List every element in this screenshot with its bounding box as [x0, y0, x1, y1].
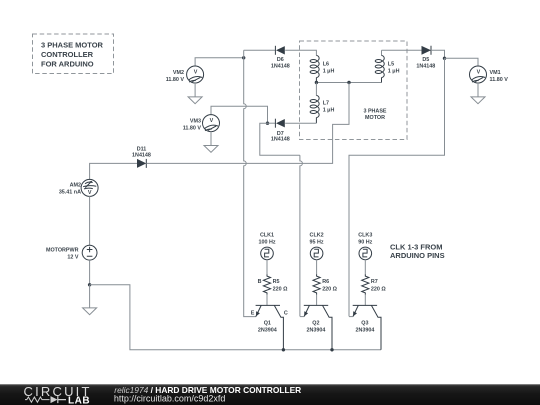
svg-text:1N4148: 1N4148 — [271, 136, 290, 142]
3 phase motor enclosure box — [300, 41, 408, 140]
svg-text:VM1: VM1 — [490, 70, 501, 76]
svg-text:12 V: 12 V — [67, 255, 78, 261]
svg-text:L6: L6 — [323, 62, 329, 68]
svg-text:Q2: Q2 — [312, 321, 319, 327]
voltmeter VM2 — [166, 66, 204, 97]
node Q2 collector to bus — [330, 348, 333, 351]
svg-text:220 Ω: 220 Ω — [322, 287, 337, 293]
resistor R6 — [313, 274, 338, 305]
node Q1 collector to bus — [282, 348, 285, 351]
node junction L6/L7 — [315, 81, 318, 84]
wire D7 to L7 bottom — [285, 122, 316, 124]
transistor Q3 — [349, 305, 381, 349]
svg-text:L7: L7 — [323, 101, 329, 107]
svg-text:V: V — [194, 69, 198, 75]
ground for VM2 — [188, 97, 202, 104]
svg-text:MOTOR: MOTOR — [365, 115, 385, 121]
footer bar — [0, 384, 540, 405]
CircuitLab logo — [24, 384, 92, 405]
svg-text:220 Ω: 220 Ω — [371, 287, 386, 293]
svg-text:11.80 V: 11.80 V — [490, 77, 509, 83]
svg-text:R7: R7 — [371, 279, 378, 285]
svg-text:CLK3: CLK3 — [358, 233, 372, 239]
ground for MOTORPWR — [83, 308, 97, 315]
wire L5 top to D5 — [382, 49, 422, 51]
footer text — [114, 385, 301, 403]
wire D6 to L6 top — [285, 50, 316, 55]
voltmeter VM3 — [183, 115, 220, 146]
wire node to VM1 — [445, 58, 479, 66]
svg-text:35.41 nA: 35.41 nA — [59, 190, 81, 196]
wire D7 junction to diode — [268, 122, 276, 124]
svg-text:1 μH: 1 μH — [323, 107, 335, 113]
emitter column2 wire with hop — [300, 155, 303, 316]
wire junction to ground — [89, 285, 91, 308]
ground for VM1 — [471, 97, 485, 104]
svg-text:AM2: AM2 — [70, 183, 81, 189]
svg-text:ARDUINO PINS: ARDUINO PINS — [390, 251, 445, 260]
diode D11 — [132, 147, 151, 168]
node D7 junction — [266, 122, 269, 125]
transistor Q2 — [300, 305, 332, 349]
inductor L6 — [310, 56, 334, 83]
svg-text:1 μH: 1 μH — [388, 68, 400, 74]
note CLK 1-3 FROM ARDUINO PINS — [390, 243, 445, 261]
svg-text:3 PHASE: 3 PHASE — [363, 108, 386, 114]
svg-text:MOTORPWR: MOTORPWR — [46, 248, 79, 254]
clock source CLK3 — [358, 233, 372, 275]
svg-text:V: V — [88, 190, 92, 196]
svg-text:1 μH: 1 μH — [323, 68, 335, 74]
wire motor bus L6 bottom to L5 bottom — [316, 82, 381, 84]
resistor R5 — [258, 274, 288, 305]
node D5/VM1 junction — [443, 57, 446, 60]
svg-text:220 Ω: 220 Ω — [273, 287, 288, 293]
wire junction right and down to bottom bus — [90, 285, 381, 350]
diode D7 — [271, 119, 290, 143]
svg-text:V: V — [210, 118, 214, 124]
ammeter AM2 — [59, 163, 137, 245]
svg-text:D6: D6 — [277, 57, 284, 63]
wire D5 to node and down to right rail — [431, 50, 445, 58]
voltage source MOTORPWR — [46, 245, 97, 284]
annotation box: 3 PHASE MOTOR CONTROLLER FOR ARDUINO — [33, 34, 114, 74]
svg-text:11.80 V: 11.80 V — [166, 77, 185, 83]
svg-text:B: B — [258, 279, 262, 285]
svg-text:VM2: VM2 — [173, 70, 184, 76]
svg-text:90 Hz: 90 Hz — [358, 239, 372, 245]
svg-text:95 Hz: 95 Hz — [310, 239, 324, 245]
svg-text:1N4148: 1N4148 — [271, 63, 290, 69]
svg-text:Q1: Q1 — [264, 321, 271, 327]
svg-text:D5: D5 — [422, 57, 429, 63]
node VM2 junction — [242, 56, 245, 59]
wire jog from D7 junction down to emitter column2 — [260, 123, 300, 155]
inductor L5 — [375, 50, 399, 82]
svg-text:Q3: Q3 — [361, 321, 368, 327]
svg-text:3 PHASE MOTOR: 3 PHASE MOTOR — [41, 41, 104, 50]
clock source CLK1 — [258, 233, 275, 275]
svg-text:R5: R5 — [273, 279, 280, 285]
transistor Q1 — [251, 305, 288, 349]
wire D11 to center tap riser — [146, 83, 349, 164]
svg-text:1N4148: 1N4148 — [416, 63, 435, 69]
svg-text:2N3904: 2N3904 — [258, 328, 277, 334]
svg-text:2N3904: 2N3904 — [306, 328, 325, 334]
emitter column1 wire with hops — [244, 50, 256, 316]
wire VM3 to D7 junction — [211, 106, 268, 123]
node junction center tap — [347, 81, 350, 84]
svg-text:E: E — [251, 311, 255, 317]
diode D6 — [271, 46, 290, 70]
svg-text:R6: R6 — [322, 279, 329, 285]
diode D5 — [416, 46, 435, 70]
wire VM2 to emitter column1 — [195, 58, 244, 66]
svg-text:LAB: LAB — [68, 395, 90, 405]
svg-text:1N4148: 1N4148 — [132, 153, 151, 159]
resistor R7 — [362, 274, 387, 305]
wire top: emitter column1 top corner to D6 — [244, 49, 276, 51]
svg-text:2N3904: 2N3904 — [355, 328, 374, 334]
svg-text:VM3: VM3 — [190, 118, 201, 124]
clock source CLK2 — [310, 233, 324, 275]
svg-text:FOR ARDUINO: FOR ARDUINO — [41, 60, 94, 69]
ground for VM3 — [204, 146, 218, 153]
svg-text:L5: L5 — [388, 62, 394, 68]
svg-text:CONTROLLER: CONTROLLER — [41, 50, 94, 59]
svg-text:CLK2: CLK2 — [310, 233, 324, 239]
voltmeter VM1 — [470, 66, 509, 97]
svg-text:11.80 V: 11.80 V — [183, 125, 202, 131]
svg-text:V: V — [477, 69, 481, 75]
svg-text:http://circuitlab.com/c9d2xfd: http://circuitlab.com/c9d2xfd — [114, 393, 226, 403]
svg-text:C: C — [284, 310, 288, 316]
node MOTORPWR bottom junction — [88, 283, 91, 286]
svg-text:CLK1: CLK1 — [260, 233, 274, 239]
svg-text:100 Hz: 100 Hz — [258, 239, 275, 245]
inductor L7 — [310, 83, 334, 124]
right rail wire from D5 node down and left to Q3 emitter column — [349, 58, 445, 316]
